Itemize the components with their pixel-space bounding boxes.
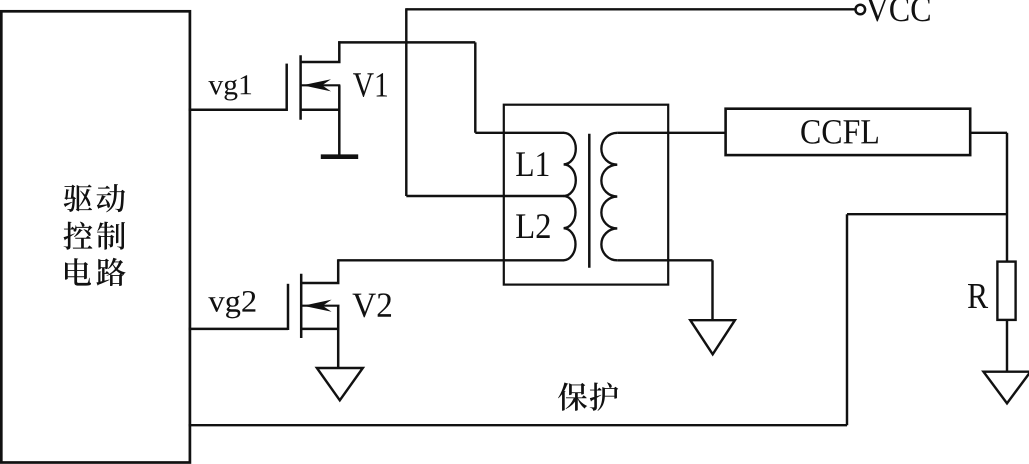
- label 保 (protect): [558, 382, 587, 410]
- label vg2: [208, 297, 224, 312]
- transistor V2 drain stub: [301, 259, 338, 283]
- wire CCFL output: [970, 132, 1007, 134]
- wire R to ground: [1006, 320, 1008, 372]
- wire feedback tap: [847, 213, 1007, 215]
- V2 ground triangle: [317, 368, 363, 400]
- transistor V2 gate bar: [287, 284, 290, 330]
- label L1: [516, 152, 532, 176]
- label vg1: [208, 81, 223, 94]
- CCFL box: [726, 109, 971, 155]
- resistor R body: [997, 262, 1015, 320]
- transistor V2 source line: [301, 328, 338, 331]
- transformer core: [588, 134, 591, 268]
- wire V1 drain horizontal: [338, 41, 475, 43]
- driver control box (驱动控制电路): [1, 11, 190, 462]
- wire vg1 gate: [189, 109, 287, 112]
- wire secondary bottom: [617, 259, 712, 261]
- R ground triangle: [984, 372, 1029, 404]
- wire center tap horizontal: [406, 195, 564, 197]
- label 制: [97, 222, 125, 250]
- transistor V2 channel bar: [300, 274, 303, 338]
- label V1: [353, 73, 374, 97]
- label 动: [97, 184, 126, 212]
- label 路: [96, 258, 125, 286]
- label VCC: [866, 0, 888, 22]
- wire down to R: [1006, 133, 1008, 262]
- wire VCC vertical to center tap: [405, 8, 407, 196]
- label R: [968, 284, 988, 308]
- label L2: [516, 214, 533, 238]
- label CCFL: [801, 120, 819, 144]
- wire feedback vertical: [846, 214, 848, 425]
- VCC terminal circle: [856, 5, 866, 15]
- label V2: [353, 294, 376, 318]
- transistor V1 source drop: [338, 85, 341, 155]
- wire feedback bottom: [189, 424, 848, 426]
- wire to L1 top: [475, 132, 564, 134]
- secondary ground triangle: [690, 320, 735, 354]
- wire V2 drain to L2: [338, 259, 564, 261]
- wire secondary top to CCFL: [617, 132, 725, 134]
- wire secondary ground drop: [711, 260, 713, 320]
- transistor V1 body line: [301, 84, 341, 86]
- transformer box: [504, 105, 668, 285]
- transistor V1 body arrowhead: [303, 79, 332, 91]
- transistor V1 drain stub: [301, 41, 340, 62]
- label 驱 (drive): [64, 185, 92, 212]
- transistor V1 gate bar: [285, 64, 288, 111]
- secondary winding: [601, 133, 617, 261]
- winding L1: [564, 133, 576, 196]
- label 电: [65, 258, 91, 285]
- label 控: [64, 222, 93, 250]
- wire V1 drain vertical: [474, 42, 476, 132]
- transistor V2 body arrowhead: [303, 300, 332, 312]
- winding L2: [564, 196, 576, 260]
- transistor V2 body line: [301, 305, 339, 307]
- wire VCC rail: [406, 8, 854, 10]
- label 护: [590, 382, 618, 411]
- transistor V1 channel bar: [299, 55, 302, 120]
- transistor V2 source drop: [337, 306, 340, 368]
- V1 source bar terminal: [321, 154, 358, 159]
- wire vg2 gate: [189, 328, 289, 331]
- transistor V1 source line: [301, 109, 340, 112]
